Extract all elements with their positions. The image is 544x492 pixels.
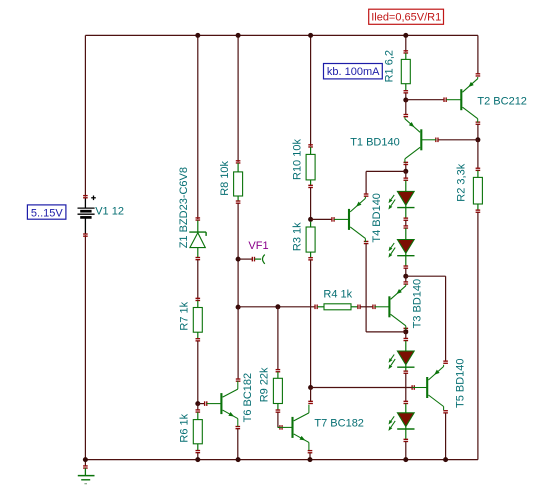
svg-text:Iled=0,65V/R1: Iled=0,65V/R1 (371, 12, 441, 24)
svg-text:R3 1k: R3 1k (291, 222, 303, 251)
svg-text:T5 BD140: T5 BD140 (455, 358, 467, 408)
svg-text:kb. 100mA: kb. 100mA (327, 66, 380, 78)
svg-text:R2 3,3k: R2 3,3k (455, 163, 467, 201)
svg-text:T2 BC212: T2 BC212 (477, 95, 527, 107)
svg-text:R9 22k: R9 22k (258, 367, 270, 402)
svg-text:R8 10k: R8 10k (219, 160, 231, 195)
svg-text:T6 BC182: T6 BC182 (242, 373, 254, 423)
svg-text:R4 1k: R4 1k (323, 288, 352, 300)
svg-text:5..15V: 5..15V (31, 207, 63, 219)
svg-text:T1 BD140: T1 BD140 (350, 136, 400, 148)
svg-text:T7 BC182: T7 BC182 (314, 418, 364, 430)
svg-text:T4 BD140: T4 BD140 (371, 193, 383, 243)
svg-text:V1 12: V1 12 (95, 205, 124, 217)
svg-text:Z1 BZD23-C6V8: Z1 BZD23-C6V8 (178, 167, 190, 248)
svg-text:T3 BD140: T3 BD140 (412, 279, 424, 329)
svg-text:R10 10k: R10 10k (292, 139, 304, 180)
svg-text:VF1: VF1 (248, 240, 268, 252)
svg-text:R7 1k: R7 1k (179, 301, 191, 330)
svg-text:R1 6,2: R1 6,2 (383, 50, 395, 82)
svg-text:R6 1k: R6 1k (179, 413, 191, 442)
